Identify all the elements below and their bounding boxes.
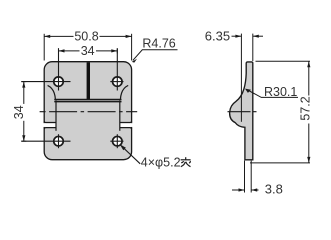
label R4.76 leader — [133, 50, 178, 61]
dim 34 left arrows — [22, 82, 25, 142]
svg-text:57.2: 57.2 — [299, 96, 313, 120]
left knuckle vertical — [55, 100, 57, 131]
bend curve right — [120, 85, 128, 99]
dim 6.35 arrows — [235, 35, 258, 38]
front center axis line — [40, 111, 138, 113]
dim 57.2 lines — [250, 61, 310, 163]
left slot outline — [44, 121, 56, 129]
hole bottom-left — [21, 134, 70, 148]
knuckle edge upper line 2 — [54, 101, 121, 103]
svg-text:6.35: 6.35 — [205, 29, 230, 44]
dim 34 top lines — [59, 48, 118, 53]
svg-text:4×φ5.2: 4×φ5.2 — [141, 155, 181, 169]
right knuckle vertical — [119, 100, 121, 131]
curl edge vertical — [240, 34, 242, 122]
right slot outline — [120, 121, 132, 129]
front view hinge body — [44, 62, 131, 160]
label R30.1 leader — [246, 89, 298, 97]
dim 34 left lines — [21, 82, 26, 142]
svg-text:34: 34 — [81, 44, 95, 58]
svg-text:R4.76: R4.76 — [142, 37, 175, 51]
dim 3.8 arrows — [239, 188, 258, 191]
knuckle edge upper line 1 — [54, 99, 121, 101]
center slit — [87, 62, 90, 100]
left slot white gap — [43, 123, 56, 127]
hole top-left — [21, 48, 70, 90]
svg-text:50.8: 50.8 — [74, 30, 98, 44]
dim 57.2 arrows — [307, 61, 310, 163]
svg-text:34: 34 — [12, 105, 26, 119]
svg-text:R30.1: R30.1 — [264, 85, 297, 99]
side center axis line — [228, 111, 257, 113]
bend curve left — [48, 85, 56, 99]
hole bottom-right — [110, 134, 123, 148]
right slot white gap — [120, 123, 133, 127]
dim 34 top arrows — [59, 49, 118, 52]
dim 50.8 lines — [44, 34, 131, 61]
hole top-right — [110, 48, 123, 90]
label 4xphi5.2 leader — [122, 146, 141, 164]
kanji hole (ana) — [181, 157, 191, 167]
dim 3.8 lines — [232, 161, 259, 193]
svg-text:3.8: 3.8 — [265, 182, 283, 197]
side view body — [230, 62, 253, 160]
dim 50.8 arrows — [44, 35, 131, 38]
dim 6.35 lines — [232, 34, 264, 61]
